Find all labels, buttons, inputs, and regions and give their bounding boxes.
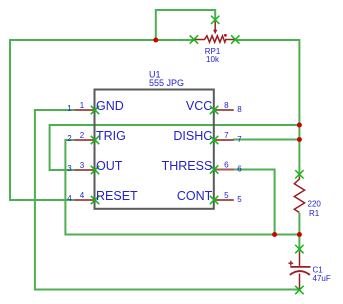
pin 8 stub [214, 109, 234, 111]
capacitor C1 bottom lead [299, 274, 301, 290]
svg-text:3: 3 [67, 164, 72, 173]
capacitor C1 top lead [299, 252, 301, 266]
svg-text:555 JPG: 555 JPG [149, 78, 184, 88]
svg-text:2: 2 [80, 131, 85, 140]
junction bottom-middle rail / THRESS wire [272, 232, 277, 237]
potentiometer RP1 body [195, 36, 235, 42]
pin 3 connect X [91, 166, 99, 174]
R1 top terminal X [295, 170, 303, 178]
svg-text:1: 1 [67, 104, 72, 113]
pin 4 connect X [91, 196, 99, 204]
svg-text:3: 3 [80, 161, 85, 170]
svg-text:7: 7 [224, 131, 229, 140]
pin 2 stub [75, 139, 95, 141]
svg-text:VCC: VCC [186, 99, 212, 113]
junction right rail / OUT wire [297, 123, 302, 128]
svg-text:RESET: RESET [96, 189, 138, 203]
svg-text:THRESS: THRESS [162, 159, 213, 173]
svg-text:TRIG: TRIG [96, 129, 126, 143]
svg-text:2: 2 [67, 134, 72, 143]
C1 bottom terminal X [295, 286, 303, 294]
wire OUT pin3 left, up, across to right rail [50, 125, 300, 170]
pin 7 stub [214, 139, 234, 141]
pin 6 connect X [210, 165, 218, 173]
svg-text:220: 220 [308, 200, 322, 209]
pin 5 stub [214, 199, 234, 201]
wire left frame: top rail y=40 from left frame to RP1 left, down left side to RESET [10, 40, 194, 200]
wire C1 top stub [298, 235, 300, 252]
svg-text:47uF: 47uF [313, 274, 331, 283]
svg-text:4: 4 [80, 191, 85, 200]
svg-text:5: 5 [237, 195, 242, 204]
pin 6 stub [214, 169, 234, 171]
wire RP1 right to right rail down to R1 top [236, 40, 300, 177]
pin 8 connect X [210, 106, 218, 114]
capacitor C1 plus sign [288, 261, 293, 266]
svg-text:6: 6 [237, 165, 242, 174]
svg-text:OUT: OUT [96, 159, 123, 173]
op IC box U1 [95, 90, 214, 209]
pin 5 connect X [210, 196, 218, 204]
junction right rail / DISHC wire [297, 137, 302, 142]
RP1 wiper arrowhead [213, 30, 217, 35]
svg-text:10k: 10k [206, 55, 220, 64]
pin 4 stub [75, 199, 95, 201]
pin 1 stub [75, 109, 95, 111]
junction bottom-middle rail / R1-C1 [297, 232, 302, 237]
wire DISHC pin7 to right rail [233, 139, 299, 141]
pin 7 connect X [210, 136, 218, 144]
svg-text:1: 1 [80, 101, 85, 110]
pin 3 stub [75, 169, 95, 171]
RP1 pin1 mark dot [224, 34, 227, 37]
RP1 left terminal X [190, 35, 198, 43]
svg-text:R1: R1 [309, 209, 320, 218]
svg-text:CONT: CONT [177, 189, 213, 203]
svg-text:5: 5 [224, 191, 229, 200]
svg-text:6: 6 [224, 161, 229, 170]
C1 top terminal X [295, 245, 303, 253]
capacitor C1 curved plate [290, 271, 310, 275]
wire R1 bottom to junction [298, 213, 300, 235]
pin 2 connect X [91, 136, 99, 144]
RP1 right terminal X [231, 35, 239, 43]
junction top rail / loop [153, 38, 158, 43]
resistor R1 body [294, 177, 304, 213]
wire loop: RP1 left junction up and over to wiper top [156, 10, 215, 40]
capacitor C1 top plate [290, 266, 310, 268]
svg-text:7: 7 [237, 135, 242, 144]
RP1 wiper top X [211, 16, 219, 24]
RP1 wiper arrow shaft [214, 22, 216, 31]
pin 1 connect X [91, 106, 99, 114]
svg-text:DISHC: DISHC [173, 129, 212, 143]
wire TRIG pin2 left, down, across bottom-middle rail [65, 140, 299, 235]
svg-text:4: 4 [67, 194, 72, 203]
wire GND pin1 left, down, bottom rail to C1 bottom [35, 110, 300, 290]
wire THRESS pin6 right and down to bottom-middle rail [233, 170, 275, 235]
svg-text:GND: GND [96, 99, 124, 113]
svg-text:8: 8 [224, 101, 229, 110]
svg-text:8: 8 [237, 105, 242, 114]
